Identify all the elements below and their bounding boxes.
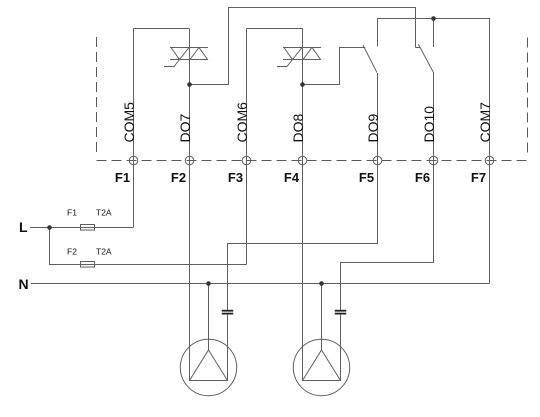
svg-text:N: N	[19, 276, 29, 292]
svg-text:F4: F4	[284, 170, 300, 185]
svg-text:F2: F2	[171, 170, 186, 185]
svg-text:F3: F3	[228, 170, 243, 185]
svg-text:DO9: DO9	[365, 114, 381, 143]
svg-text:T2A: T2A	[96, 247, 112, 257]
svg-text:COM5: COM5	[121, 102, 137, 143]
svg-text:F1: F1	[67, 208, 77, 218]
svg-text:COM6: COM6	[234, 102, 250, 143]
svg-text:F2: F2	[67, 247, 77, 257]
svg-text:DO8: DO8	[290, 114, 306, 143]
svg-text:F5: F5	[359, 170, 374, 185]
svg-text:L: L	[19, 219, 28, 235]
svg-text:F7: F7	[471, 170, 486, 185]
svg-text:DO10: DO10	[421, 106, 437, 143]
svg-text:F6: F6	[415, 170, 430, 185]
svg-text:DO7: DO7	[177, 114, 193, 143]
svg-text:T2A: T2A	[96, 208, 112, 218]
svg-text:COM7: COM7	[477, 102, 493, 143]
svg-text:F1: F1	[115, 170, 130, 185]
